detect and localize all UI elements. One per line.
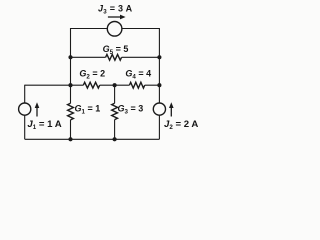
junction dot: bottom rail at G1 — [68, 137, 72, 141]
resistor G2 (horizontal, row-3 left) — [83, 82, 99, 88]
svg-text:G2 = 2: G2 = 2 — [79, 68, 105, 80]
wire: bottom rail — [25, 138, 160, 140]
junction dot: row-2 left — [68, 55, 72, 59]
resistor G1 (vertical, left branch) — [68, 103, 74, 120]
current source J1 (circle, far-left branch) — [19, 103, 31, 115]
junction dot: row-3 right (node 2) — [157, 83, 161, 87]
junction dot: row-3 middle (node 3) — [113, 83, 117, 87]
svg-text:J2 = 2 A: J2 = 2 A — [164, 119, 198, 131]
arrow for J2 (points up) — [169, 102, 174, 116]
junction dot: row-2 right — [157, 55, 161, 59]
resistor G5 (horizontal, row-2) — [106, 54, 122, 60]
current source J2 (circle, far-right branch) — [153, 103, 165, 115]
arrow for J1 (points up) — [35, 102, 40, 116]
current source J3 (circle on top rail) — [107, 22, 122, 37]
junction dot: row-3 left (node 1) — [68, 83, 72, 87]
junction dot: bottom rail at G3 — [113, 137, 117, 141]
resistor G3 (vertical, middle branch) — [112, 103, 118, 119]
wire: right vertical, row-2 to row-3 — [158, 57, 160, 85]
resistor G4 (horizontal, row-3 right) — [129, 82, 144, 88]
svg-text:G3 = 3: G3 = 3 — [118, 104, 144, 116]
svg-text:J1 = 1 A: J1 = 1 A — [27, 119, 61, 131]
wire: top rail (node 1 to node 2 via J3) — [71, 28, 160, 30]
svg-text:G4 = 4: G4 = 4 — [125, 68, 151, 80]
wire: middle vertical row-3 to G3 and G3 to bottom — [114, 85, 116, 139]
wire: right vertical, top rail to row-2 — [158, 28, 160, 57]
wire: left vertical, row-2 to row-3 — [70, 57, 72, 85]
wire: right vertical row-3 down through J2 to bottom — [158, 85, 160, 139]
wire: far-left vertical row-3 down through J1 to bottom — [24, 85, 26, 140]
arrow for J3 (points right) — [108, 15, 126, 20]
wire: left vertical, top rail to row-2 — [70, 28, 72, 57]
wire: row-2 rail with G5 — [71, 56, 160, 58]
wire: row-3 rail segments — [25, 84, 160, 86]
wire: left vertical row-3 to G1 and G1 to bottom — [70, 85, 72, 139]
svg-text:G1 = 1: G1 = 1 — [75, 104, 101, 116]
svg-text:J3 = 3 A: J3 = 3 A — [98, 4, 133, 16]
